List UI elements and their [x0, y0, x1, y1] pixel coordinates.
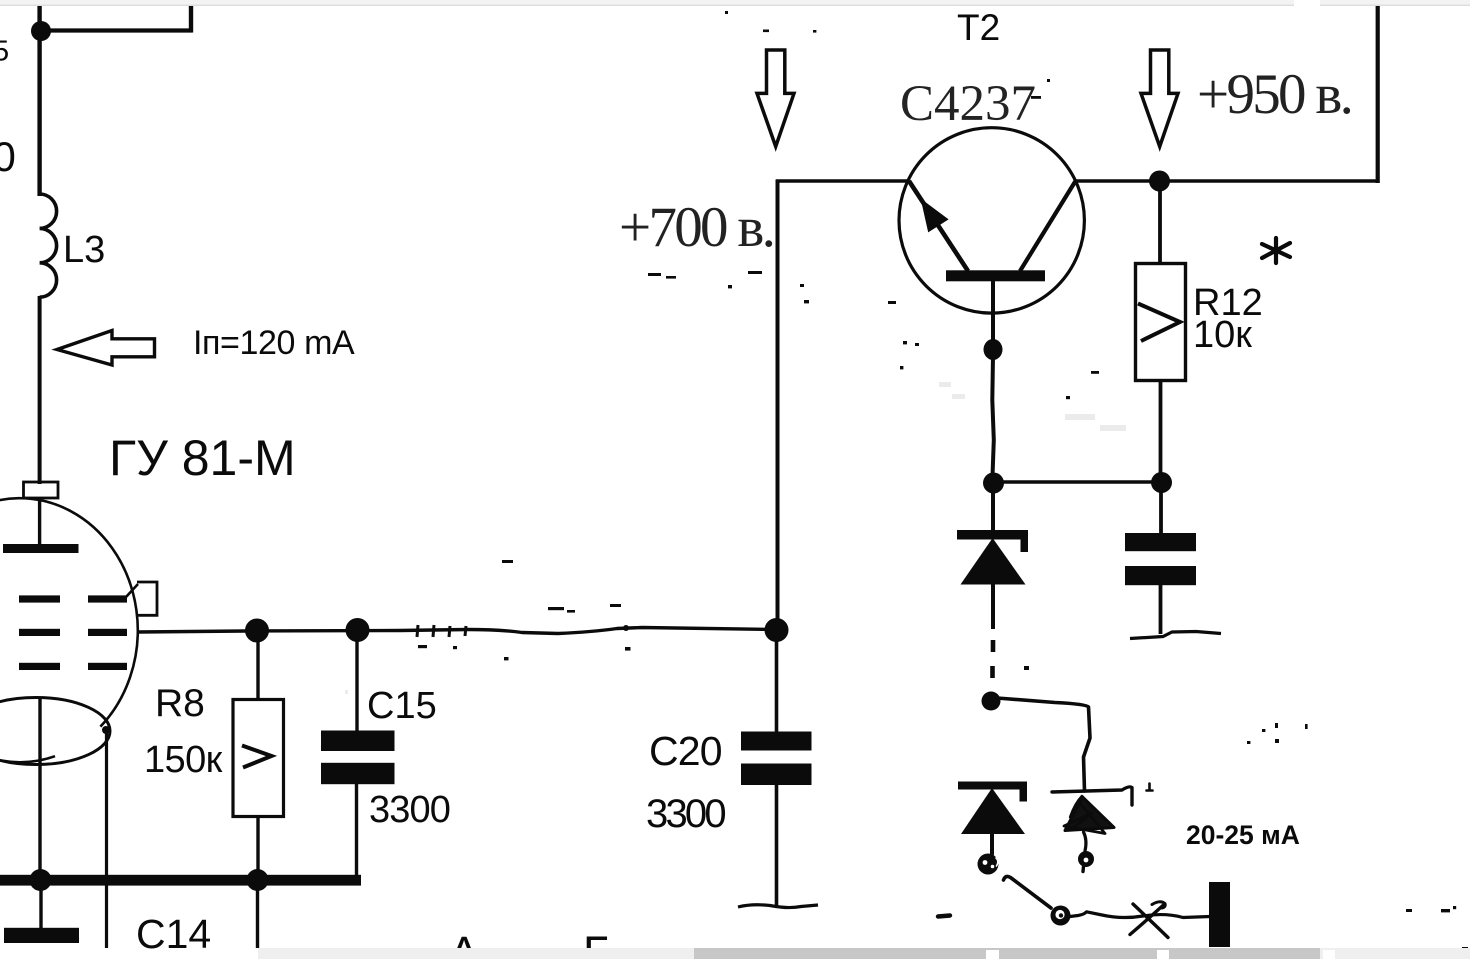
capacitor C15 bottom plate [321, 763, 395, 784]
wire: C15 top lead [355, 630, 358, 732]
grid side-cap square (open left) [137, 582, 157, 615]
transistor T2 base bar [946, 270, 1045, 281]
svg-text:3300: 3300 [369, 789, 450, 831]
wire: cap into tube to anode [38, 498, 41, 545]
wire: hand-drawn curve from terminal 1 to terminal 3 [1004, 876, 1052, 908]
node: junction at R8 top [245, 619, 269, 643]
hand dash left of D2 row [938, 916, 950, 917]
inductor L3 [40, 194, 57, 297]
transistor T2 emitter arrowhead [921, 199, 949, 233]
wire: horizontal from junction to corner stub [41, 28, 193, 32]
wire: R12 top lead [1158, 189, 1162, 264]
tube top cap square [24, 482, 59, 498]
svg-text:0: 0 [0, 133, 16, 180]
wire: bypass cap top lead [1159, 490, 1163, 534]
svg-text:C4237: C4237 [900, 76, 1036, 132]
wire: +950 rail from top edge [1376, 4, 1380, 183]
wire: below L3 down to tube top cap [38, 296, 42, 484]
node: junction dot top-left [31, 21, 51, 41]
scan noise specks [418, 11, 1468, 950]
capacitor (bypass) bottom plate [1125, 566, 1196, 585]
node: junction left of zener row [983, 473, 1004, 494]
hand-drawn circled terminal 3 [1051, 906, 1071, 926]
tube envelope ellipse [0, 498, 138, 762]
wire: R8 top lead [256, 630, 259, 700]
svg-text:5: 5 [0, 36, 9, 68]
hand-drawn circled terminal 1 [978, 854, 999, 875]
svg-text:T2: T2 [957, 7, 1000, 48]
svg-text:R8: R8 [155, 682, 205, 725]
wire: corner stub up to top edge [189, 5, 193, 33]
wire: hand-drawn ground stroke under bypass cap [1130, 632, 1221, 639]
node: junction at +950 / R12 [1149, 171, 1170, 192]
svg-text:C14: C14 [136, 911, 211, 957]
capacitor C20 top plate [741, 732, 812, 751]
zener diode D2 triangle [961, 788, 1025, 834]
hand mark near hand zener [1147, 784, 1153, 791]
zener (hand-drawn) cathode bar [1052, 787, 1132, 805]
bottom scrollbar band [258, 948, 1470, 959]
grid side-cap connector diagonal [126, 584, 138, 597]
resistor R12 chevron mark [1138, 304, 1180, 342]
resistor R8 chevron mark [242, 746, 272, 768]
capacitor C15 top plate [321, 731, 395, 752]
wire: dashed link between zeners [990, 640, 995, 678]
capacitor C20 bottom plate [741, 764, 812, 786]
grid row 3 dashes [19, 663, 60, 670]
hand-drawn circled terminal 2 [1078, 851, 1094, 867]
resistor R8 body [233, 700, 284, 817]
grid row 2 dashes [19, 629, 60, 636]
wire: below D1 [991, 584, 995, 629]
triangle (hand-drawn scribbled diode) [1065, 797, 1114, 831]
node: junction +700/C20 [765, 618, 789, 642]
wire: cathode lead x=40 inside dome down to bus [38, 698, 41, 876]
transistor T2 circle [899, 128, 1084, 313]
capacitor C14 top plate [4, 928, 79, 943]
svg-text:10к: 10к [1193, 314, 1252, 356]
node: junction right of zener row [1151, 472, 1172, 493]
anode plate bar [3, 544, 79, 553]
svg-text:+950 в.: +950 в. [1197, 63, 1351, 126]
top gray band (browser edge) [0, 0, 1470, 6]
asterisk annotation [1262, 238, 1290, 263]
node: hand-drawn blob junction [982, 692, 1001, 711]
wire: thick ground bus at bottom [0, 875, 361, 886]
node: bus junction at cathode [30, 869, 52, 891]
hand-drawn X mark [1130, 905, 1164, 935]
svg-text:150к: 150к [144, 739, 223, 781]
blob at dome/lead joint [102, 726, 110, 734]
wire: hand-drawn run to terminal bar [1070, 912, 1210, 918]
wire: R8 bottom lead to bus [256, 816, 259, 878]
wire: D2 anode lead [990, 834, 994, 854]
transistor T2 emitter line [909, 181, 968, 271]
wire: lead from hand triangle down [1084, 832, 1086, 851]
wire: +700 vertical rail [776, 180, 780, 632]
wire: zener D1 anode lead from left node [991, 490, 995, 532]
wire: hand-drawn ground stroke under C20 [738, 905, 818, 908]
wire: top rail left segment to transistor emitter [776, 179, 909, 183]
tube base dome ellipse [0, 698, 110, 765]
wire: hand-drawn link right then down [997, 698, 1090, 791]
svg-text:ГУ 81-М: ГУ 81-М [109, 430, 296, 486]
node: junction at C15 top [346, 618, 370, 642]
zener diode D2 cathode bar with hook [958, 782, 1027, 802]
node: bus junction at R8 [247, 869, 269, 891]
wire: transistor base lead down [991, 281, 995, 342]
grid row 1 dashes [19, 595, 60, 602]
hand blob on wire [623, 625, 629, 631]
wire: grid output from tube edge to +700 node [137, 628, 778, 634]
svg-text:C15: C15 [367, 685, 437, 727]
svg-text:L3: L3 [63, 229, 105, 271]
wire: C15 bottom lead to bus [355, 784, 358, 876]
wire: base node down to zener row (slightly wavy) [992, 356, 994, 476]
zener diode D1 cathode bar with hook [957, 530, 1028, 552]
wire: R12 bottom lead [1159, 381, 1163, 476]
transistor T2 collector line [1020, 181, 1076, 271]
svg-text:Iп=120 mA: Iп=120 mA [193, 324, 355, 362]
svg-text:3300: 3300 [646, 792, 725, 836]
svg-text:+700 в.: +700 в. [619, 196, 773, 259]
wire: top-left vertical feed at x=40 [37, 6, 41, 196]
wire: bypass cap bottom lead [1159, 585, 1163, 634]
wire: top rail right segment from collector [1075, 179, 1379, 183]
wire: lead from bus down to C14 plate [39, 885, 42, 929]
svg-text:C20: C20 [649, 728, 722, 774]
wire: horizontal link to R12 bottom node [993, 480, 1161, 484]
arrow: hollow down arrow at +700 rail [757, 50, 794, 147]
resistor R12 body [1136, 264, 1186, 381]
node: junction dot below base [984, 339, 1003, 360]
arrow: hollow left-pointing current arrow [57, 331, 155, 366]
wire: C20 bottom lead [775, 785, 779, 906]
wire: heater lead x=104 down to bottom [105, 729, 108, 948]
wire: R8 branch continues below bus [256, 885, 259, 948]
arrow: hollow down arrow at +950 rail [1141, 50, 1178, 147]
wire: C20 top lead from +700 node [775, 630, 779, 733]
capacitor (bypass) top plate [1125, 533, 1196, 551]
terminal bar (black) [1209, 882, 1230, 947]
hand tick marks on wire [417, 625, 418, 637]
svg-text:20-25 мА: 20-25 мА [1186, 820, 1300, 850]
zener diode D1 triangle [961, 538, 1026, 585]
faint gray smudges [345, 382, 1126, 694]
